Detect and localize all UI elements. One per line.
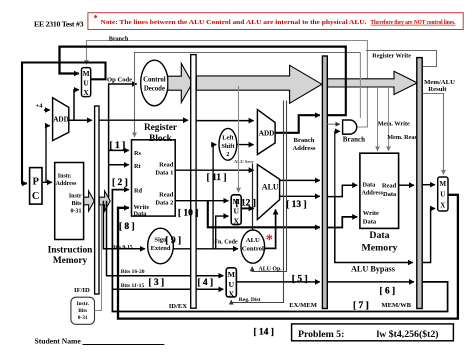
- wire branch address (ADD2 to EX/MEM and up): [275, 46, 346, 133]
- svg-text:Data: Data: [363, 218, 377, 225]
- svg-text:Block: Block: [149, 134, 173, 144]
- svg-text:Reg. Dist: Reg. Dist: [239, 297, 261, 303]
- svg-text:U: U: [228, 280, 234, 289]
- svg-text:*: *: [266, 232, 273, 248]
- svg-text:U: U: [83, 79, 89, 88]
- svg-text:Write: Write: [363, 210, 379, 217]
- pipeline register IF/ID: [95, 106, 99, 294]
- svg-text:Register: Register: [144, 123, 177, 133]
- svg-text:MEM/WB: MEM/WB: [381, 302, 411, 309]
- svg-text:Bits: Bits: [71, 201, 82, 207]
- wire ALU result to data memory address: [327, 185, 357, 196]
- svg-text:[ 11 ]: [ 11 ]: [207, 173, 227, 183]
- wire op code (to control decode): [109, 84, 137, 200]
- svg-text:[ 12 ]: [ 12 ]: [235, 199, 256, 209]
- wire read data 2 to mux: [175, 200, 228, 202]
- wire reg dist select: [231, 101, 283, 303]
- svg-text:[ 13 ]: [ 13 ]: [286, 200, 307, 210]
- wire mem write control: [377, 87, 379, 151]
- instruction bus block arrow E (IF/ID out): [99, 191, 110, 211]
- svg-text:Memory: Memory: [362, 243, 398, 254]
- svg-text:Instr.: Instr.: [77, 301, 90, 307]
- svg-text:Bits 0-15: Bits 0-15: [112, 245, 133, 251]
- svg-text:U: U: [440, 191, 445, 199]
- svg-text:X: X: [83, 88, 89, 97]
- svg-text:ALU: ALU: [262, 182, 279, 191]
- control bus segment 2 (ID/EX to EX/MEM, gray block arrow): [196, 65, 321, 103]
- svg-text:IF/ID: IF/ID: [74, 287, 90, 294]
- svg-text:[ 6 ]: [ 6 ]: [379, 287, 395, 297]
- svg-text:Control: Control: [242, 246, 264, 253]
- svg-text:Fn. Code: Fn. Code: [214, 240, 238, 246]
- svg-text:Bits 16-20: Bits 16-20: [121, 269, 145, 275]
- svg-text:ALU Srce: ALU Srce: [234, 159, 253, 164]
- wire PC mux output loop to PC: [22, 63, 106, 184]
- svg-text:2: 2: [226, 151, 229, 158]
- svg-text:Bits 11-15: Bits 11-15: [121, 283, 145, 289]
- svg-text:ALU Bypass: ALU Bypass: [351, 265, 395, 274]
- wire PC output to ADD1 and instruction memory: [42, 126, 52, 183]
- wire Rs: [109, 149, 129, 151]
- svg-text:Decode: Decode: [144, 85, 165, 92]
- register block box: [132, 140, 176, 218]
- wire instruction fields verticals: [103, 201, 223, 289]
- svg-text:Data: Data: [134, 210, 148, 217]
- ellipse ALU control: [241, 230, 265, 263]
- svg-text:Register Write: Register Write: [372, 53, 411, 60]
- svg-text:C: C: [32, 191, 40, 202]
- svg-text:Extend: Extend: [151, 245, 171, 252]
- svg-text:Data 1: Data 1: [155, 169, 173, 176]
- mux M5 (WB result): [438, 177, 448, 211]
- svg-text:Shift: Shift: [221, 143, 235, 150]
- mux M1 (PC source): [82, 68, 91, 97]
- svg-text:Rt: Rt: [134, 163, 142, 170]
- svg-text:X: X: [233, 216, 239, 225]
- svg-text:EX/MEM: EX/MEM: [289, 302, 318, 309]
- data memory box: [360, 153, 399, 228]
- wire ALU bypass: [335, 197, 435, 263]
- wire +4: [44, 109, 50, 111]
- wire AND input 2 (zero flag riser): [335, 131, 340, 196]
- svg-text:Op Code: Op Code: [107, 77, 132, 84]
- wire mux M12 output to ALU: [241, 207, 253, 209]
- wire ALU control to ALU: [264, 210, 275, 249]
- svg-text:Student Name: Student Name: [35, 337, 82, 346]
- svg-text:Therefore they are NOT control: Therefore they are NOT control lines.: [371, 20, 456, 26]
- svg-text:[ 4 ]: [ 4 ]: [197, 278, 213, 288]
- svg-text:Address: Address: [56, 181, 78, 187]
- pipeline register MEM/WB: [417, 58, 422, 309]
- svg-text:[ 2 ]: [ 2 ]: [112, 178, 128, 188]
- rounded box instr bits 0-31: [71, 297, 95, 324]
- svg-text:Read: Read: [382, 183, 397, 190]
- svg-text:M: M: [439, 180, 446, 188]
- register PC: [30, 168, 42, 205]
- svg-text:[ 3 ]: [ 3 ]: [148, 278, 164, 288]
- adder ADD1 (PC+4): [53, 98, 69, 141]
- svg-text:Problem 5:: Problem 5:: [298, 329, 344, 340]
- pipeline register EX/MEM: [322, 56, 327, 309]
- mux M4 (reg dst): [226, 268, 236, 299]
- svg-text:[ 8 ]: [ 8 ]: [119, 222, 135, 232]
- svg-text:Result: Result: [428, 86, 447, 93]
- wire writeback Rd loop: [112, 190, 447, 312]
- student name: [35, 337, 165, 346]
- pipeline register ID/EX: [191, 55, 196, 309]
- control bus segment 3 (EX/MEM to MEM/WB, gray block arrow): [328, 71, 418, 94]
- ellipse sign extend: [148, 228, 174, 264]
- wire ALU srce select (gray): [238, 86, 240, 192]
- adder ADD2 (branch address): [257, 110, 275, 155]
- wire sign extend output to ALU control: [173, 145, 238, 249]
- wire mem read control: [388, 87, 390, 151]
- svg-text:Rd: Rd: [134, 188, 143, 195]
- bracket labels: [110, 141, 396, 337]
- mux M12 (ALU source): [231, 195, 241, 226]
- instruction memory box: [55, 163, 84, 240]
- svg-text:Instr.: Instr.: [58, 174, 72, 180]
- svg-text:ADD: ADD: [259, 129, 275, 137]
- wire ALU control select (down to ALU Control): [252, 164, 254, 231]
- svg-text:[ 9 ]: [ 9 ]: [165, 236, 181, 246]
- wire register write B (right, into MEM/WB): [366, 51, 437, 67]
- svg-text:Bits: Bits: [78, 308, 87, 314]
- svg-text:Instruction: Instruction: [48, 246, 94, 256]
- wire left shift output to ADD2: [237, 144, 254, 146]
- ellipse left shift 2: [219, 128, 237, 160]
- svg-text:Control: Control: [143, 76, 166, 83]
- svg-text:[ 10 ]: [ 10 ]: [178, 208, 199, 218]
- svg-text:M: M: [228, 270, 236, 279]
- svg-text:Note: The lines between the AL: Note: The lines between the ALU Control …: [101, 20, 368, 26]
- svg-text:[ 7 ]: [ 7 ]: [353, 301, 369, 311]
- svg-text:0-31: 0-31: [71, 209, 82, 215]
- svg-text:lw $t4,256($t2): lw $t4,256($t2): [377, 329, 439, 340]
- svg-text:Data 2: Data 2: [155, 199, 173, 206]
- svg-text:Rs: Rs: [134, 150, 142, 157]
- svg-text:Branch: Branch: [294, 137, 315, 144]
- svg-text:M: M: [83, 69, 90, 78]
- ALU: [257, 165, 279, 220]
- svg-text:[ 14 ]: [ 14 ]: [253, 327, 274, 337]
- svg-text:Branch: Branch: [109, 36, 129, 43]
- svg-text:Data: Data: [369, 230, 389, 241]
- problem 5 box: [292, 324, 454, 341]
- svg-text:+4: +4: [36, 103, 44, 110]
- ellipse control decode: [141, 60, 168, 106]
- svg-text:X: X: [228, 290, 234, 299]
- svg-text:Address: Address: [293, 145, 316, 152]
- svg-text:Mem. Write: Mem. Write: [378, 121, 410, 128]
- wire branch control (AND gate output to PC mux, gray): [87, 41, 368, 128]
- svg-text:Instr: Instr: [69, 194, 82, 200]
- svg-text:Read: Read: [159, 191, 174, 198]
- instruction bus block arrow D (IM to IF/ID): [84, 191, 94, 211]
- svg-text:Data: Data: [363, 182, 376, 189]
- svg-text:Address: Address: [362, 189, 384, 196]
- wire mux M5 select (gray): [422, 94, 443, 175]
- svg-text:[ 1 ]: [ 1 ]: [110, 141, 126, 151]
- svg-text:*: *: [94, 13, 98, 23]
- wire writeback data loop (thick): [118, 195, 458, 319]
- svg-text:ALU Op.: ALU Op.: [259, 267, 283, 273]
- svg-text:0-31: 0-31: [78, 315, 88, 321]
- svg-text:Mem. Read: Mem. Read: [387, 134, 418, 141]
- svg-text:Memory: Memory: [53, 256, 88, 266]
- svg-text:ADD: ADD: [53, 116, 69, 124]
- svg-text:Read: Read: [159, 161, 174, 168]
- wire ALU outputs to EX/MEM: [280, 180, 320, 196]
- wire register write A (to register block): [135, 53, 361, 138]
- svg-text:[ 5 ]: [ 5 ]: [292, 274, 308, 284]
- wire Rt: [109, 164, 129, 166]
- svg-text:ID/EX: ID/EX: [169, 303, 188, 310]
- note box (red): [88, 13, 463, 30]
- wire ALU op select: [252, 101, 286, 272]
- svg-text:P: P: [32, 177, 39, 188]
- svg-text:Left: Left: [222, 135, 234, 142]
- svg-text:Branch: Branch: [343, 135, 365, 143]
- wire AND input 1 (from EX/MEM): [327, 123, 339, 125]
- svg-text:ALU: ALU: [246, 237, 260, 244]
- wire store data (read data 2 down to EX/MEM): [208, 201, 357, 228]
- wire gray from instr bits box up: [95, 205, 102, 311]
- wire ADD1 output to IF/ID: [69, 119, 92, 121]
- wire branch address (thick top line into PC mux): [60, 47, 346, 74]
- wire PC+4 row (IF/ID to ADD2): [99, 119, 254, 121]
- gate branch AND: [343, 120, 365, 143]
- wire PC+4 up to PC mux: [74, 90, 79, 120]
- wire read data 1 to ALU: [175, 169, 253, 171]
- wire mux M4 output row [5]: [236, 281, 414, 283]
- svg-text:Data: Data: [383, 191, 397, 198]
- svg-text:X: X: [440, 202, 445, 210]
- control bus segment 1 (control decode to ID/EX, gray block arrow): [168, 64, 193, 103]
- wire data memory read output: [399, 184, 435, 187]
- svg-text:EE 2310 Test #3: EE 2310 Test #3: [34, 20, 84, 29]
